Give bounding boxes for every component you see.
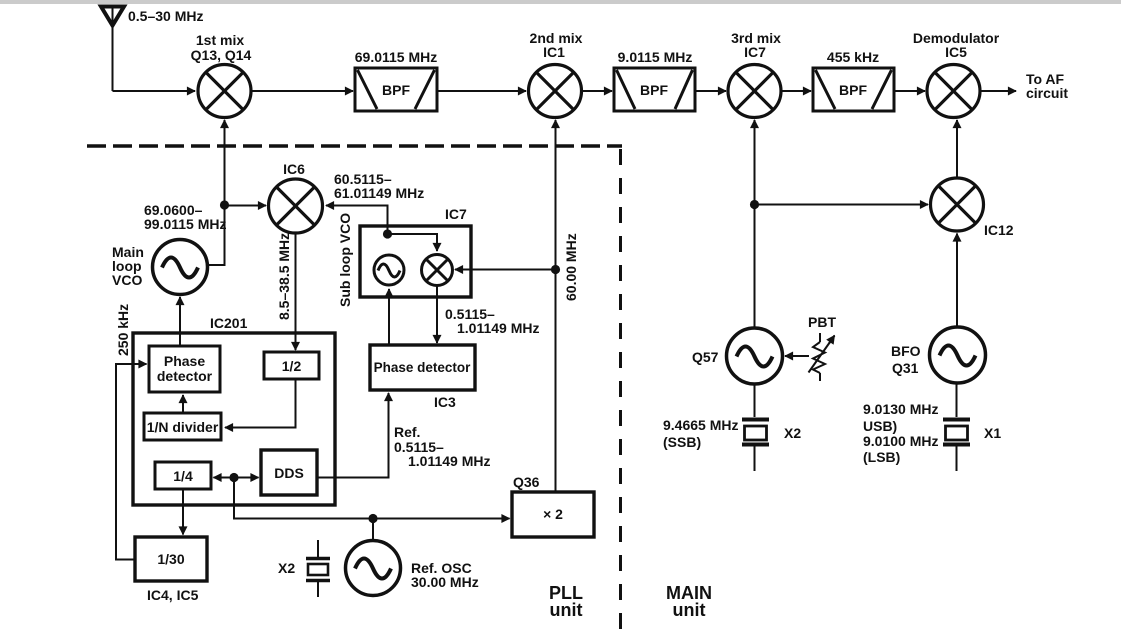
oscillator Ref OSC 30.00 MHz <box>346 541 401 596</box>
svg-text:(SSB): (SSB) <box>663 434 701 450</box>
svg-text:Q36: Q36 <box>513 474 540 490</box>
svg-text:IC7: IC7 <box>744 44 766 60</box>
mixer demodulator IC5 <box>927 65 980 118</box>
box divider 1/2 <box>264 352 319 379</box>
svg-text:1/N divider: 1/N divider <box>147 419 219 435</box>
svg-text:9.0130 MHz: 9.0130 MHz <box>863 401 938 417</box>
svg-text:1/4: 1/4 <box>173 468 193 484</box>
wire PBT to Q57 <box>785 355 809 357</box>
svg-text:BPF: BPF <box>382 82 410 98</box>
wire DDS to IC3 (Ref) <box>317 393 389 478</box>
wire IC6 to 1/2 divider <box>295 234 297 351</box>
wire 3rd mix to BPF3 <box>781 90 811 92</box>
svg-text:1st mix: 1st mix <box>196 32 244 48</box>
node main VCO line <box>220 200 229 209</box>
node 3rd mix line <box>750 200 759 209</box>
svg-text:8.5–38.5 MHz: 8.5–38.5 MHz <box>276 233 292 320</box>
wire sub VCO node to sub mixer <box>388 234 438 251</box>
wire BFO to IC12 <box>956 234 958 328</box>
wire node to Q36 <box>234 478 510 519</box>
oscillator main loop VCO <box>153 240 208 295</box>
svg-text:250 kHz: 250 kHz <box>115 304 131 356</box>
wire Q36 to 2nd mix (60 MHz) <box>555 120 557 492</box>
mixer IC6 <box>269 179 323 233</box>
svg-text:Ref.: Ref. <box>394 424 420 440</box>
box phase detector (IC201) <box>149 346 220 392</box>
wire 1/N divider to phase detector <box>182 395 184 413</box>
svg-text:IC6: IC6 <box>283 161 305 177</box>
filter BPF3 455 kHz <box>813 68 894 111</box>
svg-text:Sub loop VCO: Sub loop VCO <box>337 213 353 307</box>
wire IC3 to sub VCO <box>388 289 390 345</box>
svg-text:1/2: 1/2 <box>282 358 302 374</box>
svg-text:69.0115 MHz: 69.0115 MHz <box>355 49 438 65</box>
wire IC12 to demodulator <box>956 120 958 178</box>
wire 1/2 to 1/N divider <box>225 379 296 428</box>
svg-text:IC4, IC5: IC4, IC5 <box>147 587 199 603</box>
svg-text:VCO: VCO <box>112 272 142 288</box>
svg-text:1.01149 MHz: 1.01149 MHz <box>408 453 491 469</box>
wire ref osc to node <box>372 519 374 541</box>
wire sub VCO to IC6 <box>326 206 388 235</box>
wire BPF2 to 3rd mix <box>695 90 726 92</box>
svg-text:0.5–30 MHz: 0.5–30 MHz <box>128 8 203 24</box>
box sub loop IC7 <box>360 226 471 297</box>
svg-text:Q31: Q31 <box>892 360 919 376</box>
svg-text:Q57: Q57 <box>692 349 719 365</box>
wire main VCO to 1st mix <box>207 120 225 265</box>
wire sub mixer to IC3 phase detector <box>436 286 438 344</box>
oscillator Q57 <box>727 328 783 384</box>
svg-text:X2: X2 <box>784 425 801 441</box>
node sub VCO output <box>383 229 392 238</box>
filter BPF2 9.0115 MHz <box>614 68 695 111</box>
wire phase detector to main VCO <box>179 297 181 345</box>
svg-text:1.01149 MHz: 1.01149 MHz <box>457 320 540 336</box>
mixer sub loop <box>422 255 453 286</box>
svg-text:USB): USB) <box>863 418 897 434</box>
dashed PLL unit boundary vertical <box>619 149 622 630</box>
oscillator BFO Q31 <box>930 327 986 383</box>
svg-text:DDS: DDS <box>274 465 304 481</box>
box divider 1/N <box>144 413 221 440</box>
wire node to IC12 <box>755 204 929 206</box>
svg-text:IC201: IC201 <box>210 315 248 331</box>
box phase detector IC3 <box>370 345 475 390</box>
svg-text:× 2: × 2 <box>543 506 563 522</box>
svg-text:1/30: 1/30 <box>157 551 184 567</box>
PBT control <box>809 333 831 381</box>
svg-text:455 kHz: 455 kHz <box>827 49 879 65</box>
wire antenna to 1st mix <box>113 90 196 92</box>
svg-text:IC1: IC1 <box>543 44 565 60</box>
node 60MHz line <box>551 265 560 274</box>
svg-text:circuit: circuit <box>1026 85 1068 101</box>
box IC201 <box>133 333 335 505</box>
wire 1/30 to phase detector (250 kHz) <box>116 364 147 560</box>
oscillator sub loop VCO <box>374 255 404 285</box>
svg-text:IC7: IC7 <box>445 206 467 222</box>
svg-text:X2: X2 <box>278 560 295 576</box>
filter BPF1 69.0115 MHz <box>355 68 437 111</box>
svg-text:9.0115 MHz: 9.0115 MHz <box>618 49 693 65</box>
svg-text:BFO: BFO <box>891 343 921 359</box>
svg-text:detector: detector <box>157 368 213 384</box>
svg-text:99.0115 MHz: 99.0115 MHz <box>144 216 227 232</box>
antenna <box>101 7 124 92</box>
svg-text:Q13, Q14: Q13, Q14 <box>191 47 252 63</box>
box DDS <box>261 450 317 495</box>
wire node to IC6 <box>227 205 266 207</box>
svg-text:Phase: Phase <box>164 353 205 369</box>
mixer 2nd mix IC1 <box>529 65 582 118</box>
node ref osc junction <box>368 514 377 523</box>
box divider 1/4 <box>155 462 211 489</box>
svg-text:(LSB): (LSB) <box>863 449 900 465</box>
svg-text:30.00 MHz: 30.00 MHz <box>411 574 479 590</box>
svg-text:BPF: BPF <box>640 82 668 98</box>
scan edge strip <box>0 0 1121 4</box>
svg-text:60.00 MHz: 60.00 MHz <box>563 233 579 301</box>
wire BPF1 to 2nd mix <box>437 90 526 92</box>
svg-text:X1: X1 <box>984 425 1001 441</box>
svg-text:BPF: BPF <box>839 82 867 98</box>
mixer 1st mix Q13, Q14 <box>198 65 251 118</box>
wire 1/4 to 1/30 <box>182 489 184 535</box>
wire 2nd mix to BPF2 <box>582 90 613 92</box>
box divider 1/30 <box>135 537 207 581</box>
wire 1/4 to DDS bidirectional <box>214 477 235 479</box>
svg-text:unit: unit <box>673 600 706 620</box>
svg-text:PBT: PBT <box>808 314 836 330</box>
svg-text:9.0100 MHz: 9.0100 MHz <box>863 433 938 449</box>
svg-text:IC3: IC3 <box>434 394 456 410</box>
node 1/4-DDS <box>229 473 238 482</box>
mixer IC12 <box>931 178 984 231</box>
svg-text:unit: unit <box>550 600 583 620</box>
svg-text:IC5: IC5 <box>945 44 967 60</box>
svg-text:61.01149 MHz: 61.01149 MHz <box>334 185 424 201</box>
crystal X2 (Q57) <box>742 384 769 471</box>
crystal X1 (BFO) <box>943 383 970 471</box>
svg-text:9.4665 MHz: 9.4665 MHz <box>663 417 738 433</box>
svg-text:Phase detector: Phase detector <box>374 360 472 375</box>
wire 1st mix to BPF1 <box>251 90 353 92</box>
box Q36 x2 multiplier <box>512 492 594 537</box>
svg-text:IC12: IC12 <box>984 222 1014 238</box>
wire 60MHz node to sub mixer <box>455 269 556 271</box>
wire demodulator to AF output <box>980 90 1016 92</box>
mixer 3rd mix IC7 <box>728 65 781 118</box>
wire Q57 to 3rd mix <box>754 120 756 328</box>
wire BPF3 to demodulator <box>894 90 925 92</box>
crystal X2 (ref osc) <box>306 540 330 597</box>
dashed PLL unit boundary horizontal <box>87 144 622 148</box>
